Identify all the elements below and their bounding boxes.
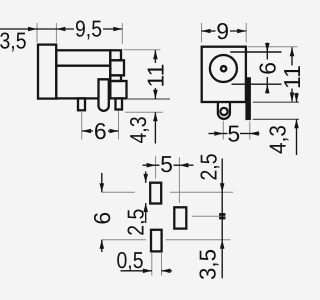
dimension line 6 (side view) bbox=[82, 130, 93, 132]
svg-text:11: 11 bbox=[279, 65, 300, 89]
body outline bbox=[56, 50, 110, 98]
dimension line 2,5 / 3,5 (pads right) bbox=[221, 159, 223, 279]
extension line square bottom right bbox=[253, 101, 299, 103]
extension tick pin left center bbox=[81, 111, 83, 140]
svg-text:9: 9 bbox=[216, 18, 229, 44]
extension tick x=56.4 bbox=[55, 23, 57, 43]
svg-text:3,5: 3,5 bbox=[0, 28, 27, 54]
barrel circle bbox=[210, 55, 237, 82]
svg-text:4,3: 4,3 bbox=[125, 117, 151, 144]
arrow left at 201.5 bbox=[202, 29, 211, 34]
extension tick x=201.5 bbox=[201, 23, 203, 43]
datum dot bbox=[219, 213, 225, 219]
dimension line 5 (pads) bbox=[143, 164, 156, 166]
centerline pad2 right bbox=[192, 215, 226, 217]
dimension line 4,3 (front) bbox=[296, 93, 298, 102]
body midline bbox=[56, 65, 110, 67]
arrow up at 203 bbox=[143, 203, 148, 212]
dimension line 11 (front) bbox=[291, 47, 293, 65]
dimension line 11 (side view) bbox=[154, 50, 156, 63]
arrow up at 84 bbox=[265, 84, 270, 93]
left solder pin bbox=[78, 98, 85, 110]
arrow down at 192.3 bbox=[220, 183, 225, 192]
dimension line 5 (front) bbox=[209, 133, 224, 135]
dimension line 2,5 (pads left) bbox=[145, 172, 147, 183]
dimension line 4,3 (side view) bbox=[154, 112, 156, 143]
arrow up at 47.3 bbox=[290, 47, 295, 56]
dimension line 6 (pads) bbox=[101, 173, 103, 192]
contact shoulder bbox=[110, 81, 126, 98]
extension tick pad2 center bbox=[178, 157, 180, 203]
extension tick flange right bbox=[249, 122, 251, 140]
arrow right at 155.6 bbox=[147, 163, 156, 168]
pad 1 bbox=[150, 183, 161, 204]
lug hole bbox=[220, 108, 227, 115]
front bezel bbox=[38, 45, 56, 99]
contact neck bbox=[110, 75, 121, 81]
arrow left at 249.8 bbox=[250, 131, 259, 136]
rounded center post bbox=[99, 79, 109, 111]
extension tick pad1 center bbox=[155, 156, 157, 179]
extension tick pad3 left bbox=[151, 252, 153, 276]
side flange bbox=[245, 77, 251, 120]
top-right tab 1 bbox=[110, 50, 121, 60]
extension tick lug center bbox=[222, 121, 224, 140]
centerline pad1 left bbox=[102, 191, 135, 193]
svg-text:6: 6 bbox=[254, 62, 280, 75]
arrow right at 246.2 bbox=[237, 29, 246, 34]
arrow left at 161.5 bbox=[162, 269, 171, 274]
arrow down at 101.5 bbox=[290, 93, 295, 102]
extension line pin bottom right bbox=[125, 111, 163, 113]
extension tick pin right center bbox=[118, 111, 120, 140]
extension line body bottom right bbox=[128, 98, 170, 100]
dimension line 3,5 / 9,5 bbox=[0, 28, 74, 30]
extension line square top right bbox=[248, 46, 298, 48]
bottom lug bbox=[218, 102, 230, 119]
dimension line 6 (front) bbox=[266, 43, 268, 53]
svg-text:0,5: 0,5 bbox=[117, 247, 144, 273]
svg-text:4,3: 4,3 bbox=[264, 125, 290, 154]
arrow down at 190.6 bbox=[100, 183, 105, 192]
extension tick x=37 bbox=[36, 23, 38, 43]
top-right tab 2 bbox=[110, 60, 124, 75]
svg-text:6: 6 bbox=[89, 212, 115, 225]
arrow right at 122.3 bbox=[113, 27, 122, 32]
svg-text:9,5: 9,5 bbox=[75, 15, 102, 41]
arrow right at 118.5 bbox=[110, 129, 119, 134]
pad 3 bbox=[151, 230, 162, 252]
arrow left at 56.4 bbox=[56, 27, 65, 32]
arrow down at 53.6 bbox=[265, 43, 270, 52]
centerline pad3 left bbox=[102, 239, 146, 241]
arrow left at 82 bbox=[82, 129, 91, 134]
svg-text:2,5: 2,5 bbox=[195, 154, 221, 181]
right solder pin bbox=[116, 98, 123, 109]
svg-text:3,5: 3,5 bbox=[195, 249, 221, 280]
arrow up at y=112.3 bbox=[153, 112, 158, 121]
svg-text:2,5: 2,5 bbox=[122, 209, 148, 236]
arrow up at 239.8 bbox=[100, 240, 105, 249]
arrow down at 102.2 bbox=[294, 93, 299, 102]
arrow down at y=98.8 bbox=[153, 90, 158, 99]
arrow up at 119.3 bbox=[294, 119, 299, 128]
svg-text:5: 5 bbox=[227, 121, 240, 147]
extension line top right of body bbox=[124, 49, 161, 51]
front square body bbox=[202, 47, 246, 102]
arrow left at 179.4 bbox=[179, 163, 188, 168]
arrow up at y=50.2 bbox=[153, 50, 158, 59]
svg-text:5: 5 bbox=[160, 151, 173, 177]
pad 2 bbox=[174, 207, 186, 228]
extension tick x=246.2 bbox=[245, 23, 247, 43]
dimension line 9 bbox=[202, 30, 216, 32]
tangent leader top bbox=[230, 51, 281, 53]
tangent leader bottom bbox=[232, 83, 282, 85]
arrow right at 151.8 bbox=[143, 269, 152, 274]
arrow up at 239.8 bbox=[220, 240, 225, 249]
arrow down at 182.9 bbox=[143, 174, 148, 183]
centerline pad3 right bbox=[166, 239, 231, 241]
centerline pad1 right bbox=[170, 191, 233, 193]
svg-text:6: 6 bbox=[94, 118, 107, 144]
center pin circle bbox=[221, 66, 226, 71]
arrow right at 37 bbox=[28, 27, 37, 32]
dimension line 0,5 bbox=[121, 270, 152, 272]
extension tick pad3 right bbox=[161, 252, 163, 276]
extension line flange bottom right bbox=[253, 118, 299, 120]
arrow right at 223.3 bbox=[214, 131, 223, 136]
svg-text:11: 11 bbox=[142, 64, 168, 88]
extension tick x=122.3 bbox=[121, 23, 123, 44]
